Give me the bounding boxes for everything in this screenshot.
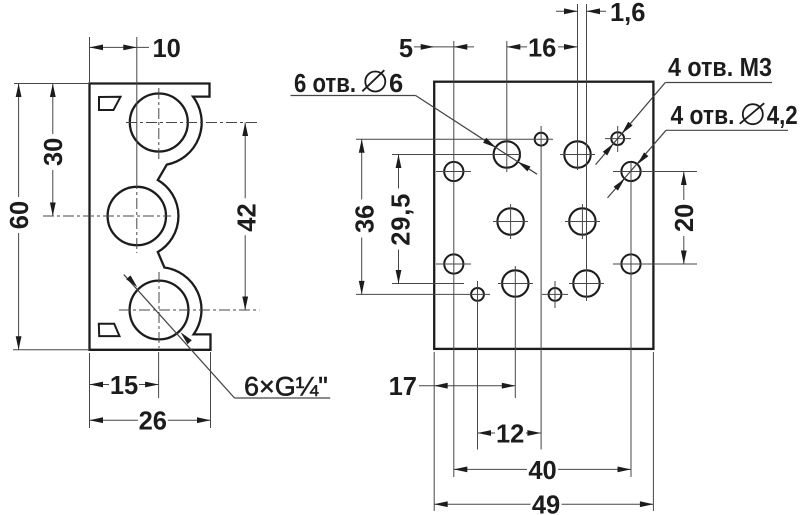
svg-text:15: 15	[110, 372, 138, 400]
leader line 6 otv. D6	[416, 96, 537, 175]
top-left trapezoid cutout	[99, 97, 121, 110]
centerline vertical top hole	[158, 88, 160, 160]
leader line 6xG1/4	[124, 275, 235, 398]
centerline / extension vertical middle hole (10 dim)	[136, 37, 138, 178]
dimension 12 white gap	[495, 420, 526, 447]
hole M3 #3	[471, 288, 484, 301]
dimension 20 white gap	[673, 200, 695, 236]
hole D6 #2	[564, 141, 590, 167]
centerline vertical bottom hole	[158, 272, 160, 348]
svg-text:6 отв.: 6 отв.	[294, 70, 356, 98]
dimension 20 line	[683, 172, 685, 265]
extension line bottom edge left (60)	[13, 349, 90, 351]
cross D4.2 bottom-left horizontal	[436, 263, 471, 265]
svg-text:6: 6	[389, 70, 403, 98]
svg-text:4,2: 4,2	[767, 102, 798, 130]
dimension 17 arrows	[434, 383, 448, 389]
dimension 42 white gap	[234, 198, 256, 235]
dimension 60 line	[18, 84, 20, 350]
hole D4.2 #4	[621, 254, 640, 273]
port hole top (G1/4)	[130, 94, 188, 152]
dimension 1,6 line	[556, 10, 578, 12]
hole M3 #1	[535, 133, 548, 146]
extension line left edge below (15/26)	[89, 353, 91, 428]
ext horizontal M3 top row (36)	[356, 138, 553, 140]
ext horizontal M3 bottom row (36)	[356, 293, 490, 295]
hole D4.2 #2	[621, 162, 640, 181]
svg-text:26: 26	[139, 408, 167, 436]
dimension 15 arrows	[90, 382, 104, 388]
dimension 12 line	[478, 432, 541, 434]
cross D6 top-right horizontal	[560, 154, 595, 156]
hole D6 #4	[569, 208, 595, 234]
dimension 10 arrows	[90, 45, 104, 51]
label 4 otv. D4,2 underline	[666, 129, 788, 131]
svg-text:17: 17	[389, 373, 417, 401]
dimension 30 line	[52, 84, 54, 217]
leader arrows 4 otv. M3	[622, 122, 633, 134]
left view: plate outline (side manifold profile)	[90, 84, 211, 350]
svg-text:42: 42	[234, 203, 262, 231]
dimension 36 white gap	[352, 200, 374, 238]
svg-text:1,6: 1,6	[610, 0, 645, 27]
leader arrows 4 otv. D4,2	[637, 152, 648, 164]
svg-text:20: 20	[671, 204, 699, 232]
dimension 1,6 arrows	[564, 8, 578, 14]
svg-text:6×G¼": 6×G¼"	[244, 372, 328, 402]
dimension 49 arrows	[434, 501, 448, 507]
ext vertical D6 top-right (1,6 left)	[577, 4, 579, 170]
dimension 40 line	[454, 468, 631, 470]
hole D6 #3	[497, 208, 523, 234]
ext vertical M3 top-center (12 right)	[540, 126, 542, 450]
dimension 16 line	[507, 46, 578, 48]
dimension 40 white gap	[527, 456, 558, 483]
cross M3 top-right	[605, 138, 631, 140]
svg-text:29,5: 29,5	[387, 193, 415, 246]
dimension 30 white gap	[42, 134, 64, 170]
hole D6 #1	[494, 141, 520, 167]
svg-text:4 отв.: 4 отв.	[671, 102, 735, 130]
cross D6 mid-left	[493, 221, 528, 223]
label 4 otv. D4,2 diameter symbol	[743, 104, 763, 124]
ext horizontal D6 bottom row (29,5)	[392, 283, 464, 285]
ext vertical D6 top-left (16)	[506, 41, 508, 172]
cross D6 mid-right	[565, 221, 600, 223]
dimension 49 line	[434, 503, 653, 505]
cross M3 bottom-center	[542, 293, 568, 295]
leader arrows 6 otv. D6	[483, 138, 496, 148]
svg-text:5: 5	[399, 35, 413, 63]
label 4 otv. M3 underline	[665, 82, 772, 84]
dimension 60 arrows	[16, 84, 22, 98]
dimension 49 white gap	[531, 491, 562, 515]
dimension 16 white gap	[527, 34, 558, 61]
dimension 36 arrows	[359, 139, 365, 153]
hole M3 #2	[611, 132, 624, 145]
svg-text:60: 60	[6, 201, 34, 229]
hole M3 #4	[549, 288, 562, 301]
dimension 42 arrows	[242, 123, 248, 137]
svg-text:49: 49	[532, 492, 560, 515]
dimension 16 arrows	[507, 44, 521, 50]
svg-text:12: 12	[496, 421, 524, 449]
ext horizontal D4.2 bottom-right (20)	[613, 263, 697, 265]
dimension 10 line	[90, 46, 150, 48]
ext vertical D4.2 right column (40)	[630, 162, 632, 477]
svg-text:4 отв. М3: 4 отв. М3	[668, 54, 772, 82]
dimension 26 arrows	[90, 417, 104, 423]
svg-text:10: 10	[153, 35, 181, 63]
ext vertical plate left edge below (49/17)	[433, 352, 435, 511]
cross D6 bottom-left horizontal	[498, 283, 533, 285]
extension line right edge below (26)	[210, 352, 212, 428]
bottom-left trapezoid cutout	[99, 324, 120, 336]
dimension 20 arrows	[681, 172, 687, 186]
dimension 30 arrows	[50, 84, 56, 98]
svg-text:16: 16	[528, 35, 556, 63]
label 6 otv. D6 underline	[291, 95, 416, 97]
centerline horizontal top hole (42 ext)	[126, 122, 259, 124]
ext vertical D6 bottom-right (1,6 right)	[586, 4, 588, 300]
svg-text:40: 40	[528, 457, 556, 485]
hole D4.2 #3	[444, 254, 463, 273]
cross D4.2 top-left horizontal	[436, 171, 471, 173]
label 6 otv. D6 diameter symbol	[365, 72, 385, 92]
leader line 4 otv. M3	[596, 83, 666, 165]
svg-text:30: 30	[40, 138, 68, 166]
dimension 15 line	[90, 384, 159, 386]
leader line 4 otv. D4,2	[608, 130, 667, 198]
ext horizontal D4.2 top-right (20)	[613, 171, 697, 173]
hole D4.2 #1	[444, 162, 463, 181]
dimension 42 line	[244, 123, 246, 311]
centerline horizontal middle hole (30 ext)	[43, 215, 171, 217]
right view: plate outline rectangle	[434, 82, 653, 349]
dimension 40 arrows	[454, 467, 468, 473]
cross D6 bottom-right	[569, 283, 604, 285]
ext vertical D4.2 left column (5/40)	[453, 41, 455, 477]
ext vertical M3 bottom-left (12 left)	[477, 281, 479, 450]
dimension 29,5 arrows	[396, 155, 402, 169]
dimension 15 white gap	[109, 371, 139, 398]
dimension 26 line	[90, 419, 211, 421]
port hole middle (G1/4)	[108, 187, 166, 245]
extension line bottom hole below (15)	[158, 352, 160, 398]
hole D6 #6	[573, 270, 599, 296]
label 6xG1/4 underline	[235, 397, 331, 399]
dimension 26 white gap	[138, 407, 168, 434]
hole D6 #5	[502, 270, 528, 296]
centerline horizontal bottom hole (42 ext)	[119, 309, 259, 311]
extension line above plate at left edge (10)	[89, 37, 91, 84]
dimension 60 white gap	[8, 197, 30, 233]
dimension 36 line	[361, 139, 363, 294]
svg-text:36: 36	[351, 205, 379, 233]
ext horizontal D6 top row (29,5)	[392, 154, 521, 156]
dimension 12 arrows	[478, 430, 492, 436]
leader arrows 6xG1/4	[126, 275, 137, 287]
extension line top edge left (60/30)	[14, 83, 90, 85]
dimension 29,5 line	[398, 155, 400, 284]
ext vertical plate right edge below (49)	[652, 352, 654, 511]
dimension 5 arrows	[421, 44, 435, 50]
ext vertical D6 bottom-left (17)	[514, 266, 516, 398]
dimension 17 line	[419, 385, 515, 387]
port hole bottom (G1/4)	[130, 281, 189, 340]
label 6xG1/4 text	[244, 372, 328, 402]
dimension 5 line	[414, 46, 474, 48]
dimension 29,5 white gap	[388, 189, 410, 250]
